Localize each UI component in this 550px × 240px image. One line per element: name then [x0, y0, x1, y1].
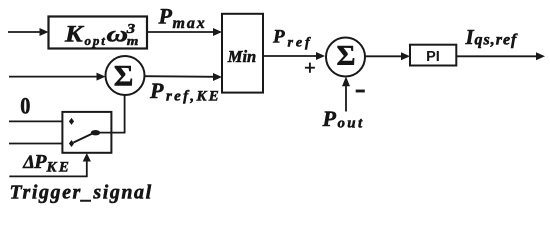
svg-text:PI: PI [426, 49, 440, 65]
wire input to Kopt block [8, 28, 49, 36]
svg-text:Σ: Σ [337, 40, 356, 72]
svg-text:qs,ref: qs,ref [475, 32, 519, 49]
label Pref,KE [149, 78, 221, 105]
svg-text:Min: Min [227, 47, 256, 66]
summation sum1 [106, 56, 145, 95]
switch input wire top [9, 120, 62, 122]
wire sum2 to PI [366, 52, 411, 60]
svg-text:P: P [272, 26, 285, 47]
label dPKE [22, 151, 71, 176]
svg-text:P: P [322, 106, 337, 131]
svg-text:m: m [127, 35, 139, 49]
switch box [62, 112, 111, 153]
svg-text:P: P [149, 78, 164, 103]
switch contact diamond top [69, 118, 74, 125]
wire sum1 to Min [145, 73, 223, 81]
svg-text:opt: opt [85, 33, 107, 48]
wire input to sum1 [9, 73, 106, 81]
minus sign [356, 90, 365, 93]
label Pref [272, 26, 313, 50]
svg-text:Trigger_signal: Trigger_signal [10, 182, 153, 204]
summation sum2 [326, 38, 365, 77]
wire Kopt block to Min [147, 28, 222, 36]
label Kopt wm3 [64, 21, 139, 49]
switch pole ellipse [91, 130, 100, 135]
block PI [410, 45, 456, 66]
svg-text:P: P [158, 3, 173, 28]
svg-text:P: P [33, 151, 47, 173]
switch contact diamond bottom [69, 140, 74, 147]
label Pout [322, 106, 365, 132]
svg-text:Σ: Σ [114, 59, 134, 92]
label Iqs,ref [465, 25, 519, 49]
svg-text:Δ: Δ [22, 153, 35, 173]
svg-text:ref: ref [288, 36, 313, 51]
svg-text:max: max [173, 15, 207, 32]
svg-text:K: K [64, 22, 84, 47]
svg-text:ω: ω [107, 22, 128, 46]
block Min [222, 14, 263, 93]
label Pmax [158, 3, 207, 32]
trigger wire and arrow [9, 153, 91, 176]
block Kopt*wm^3 [49, 17, 148, 49]
svg-text:out: out [338, 116, 365, 132]
switch arm [74, 134, 93, 143]
svg-text:KE: KE [46, 160, 72, 176]
output wire [456, 52, 545, 60]
svg-text:ref,KE: ref,KE [166, 89, 221, 105]
wire switch to sum1 [100, 95, 125, 132]
plus sign [305, 63, 315, 73]
wire Min to sum2 [263, 52, 325, 60]
svg-text:0: 0 [20, 93, 30, 118]
arrow Pout into sum2 [342, 77, 350, 112]
svg-text:I: I [465, 25, 475, 49]
switch input wire bottom [9, 143, 62, 145]
